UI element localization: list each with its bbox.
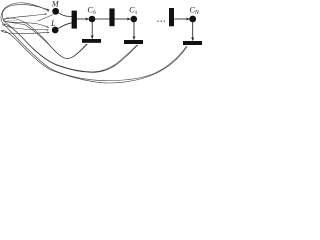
long arc: factor A to M (hairpin at left cusp, arches over top)	[4, 14, 87, 59]
short strand under M	[38, 15, 54, 22]
node C1	[131, 16, 138, 23]
chain wire bar1 to C0 (arrow)	[77, 18, 89, 20]
background	[0, 0, 208, 84]
vertical wire C0 down to factor A (arrow)	[91, 22, 93, 38]
vertical wire CN down to factor C (arrow)	[192, 22, 194, 40]
long arc: factor C to L (forks off near left)	[1, 30, 187, 83]
node CN	[189, 16, 196, 23]
svg-text:L: L	[50, 19, 56, 28]
chain wire C0 to bar2	[95, 18, 110, 20]
factor bar1	[72, 11, 77, 29]
vertical wire C1 down to factor B (arrow)	[133, 22, 135, 39]
long arc: factor B to L (forks off near left)	[3, 24, 139, 73]
wire M to factor bar1	[58, 13, 71, 17]
measurement factor C (below CN)	[183, 41, 202, 45]
measurement factor A (below C0)	[82, 39, 101, 43]
long arc: factor A to L (forks off near left)	[3, 18, 87, 59]
chain wire bar2 to C1 (arrow)	[114, 18, 130, 20]
left ellipsis dots	[7, 20, 14, 21]
measurement factor B (below C1)	[124, 40, 143, 44]
wire L to factor bar1	[58, 23, 71, 29]
node C0	[89, 16, 96, 23]
chain wire bar3 to CN (arrow)	[174, 18, 189, 20]
svg-text:M: M	[51, 0, 60, 8]
long arc: factor C to M (hairpin clipped at left edge, rises into M)	[1, 3, 187, 81]
node M	[52, 8, 59, 15]
chain ellipsis dots	[157, 21, 165, 22]
factor bar2	[109, 8, 114, 26]
node L	[52, 27, 59, 34]
factor bar3	[169, 8, 174, 26]
long arc: factor B to M (hairpin clipped at left edge, arches over top)	[2, 5, 137, 72]
